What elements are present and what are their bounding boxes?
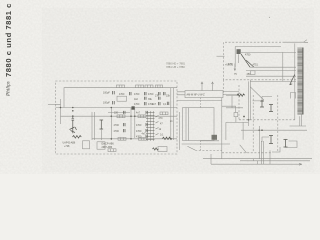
hook wire c: [285, 141, 297, 148]
wire column e: [134, 108, 136, 138]
capacitor C10a with label: [136, 111, 148, 115]
dashed horizontal 120: [239, 119, 296, 121]
junction dots: [243, 116, 245, 118]
capacitor C4b with label: [134, 97, 146, 101]
wire right inner vertical: [178, 112, 180, 150]
dashed vertical below transformer: [200, 141, 202, 151]
extra label row 1: [152, 95, 171, 107]
dashed bottom link: [195, 149, 222, 151]
junction dot: [72, 115, 74, 117]
capacitor C8 with label: [114, 123, 126, 127]
capacitor C2 with label: [103, 101, 114, 105]
hook wire d: [272, 147, 280, 152]
tube label box: [83, 141, 90, 149]
tube label ECC85: [63, 142, 76, 149]
bus line 4: [246, 75, 296, 77]
wire v248: [248, 81, 250, 126]
vertical v294: [294, 43, 296, 120]
capacitor C8a with label: [114, 111, 125, 115]
arrow up 2: [212, 82, 214, 91]
drop v259: [258, 126, 260, 159]
drop v270: [269, 150, 271, 164]
wire stubs to band box: [177, 92, 185, 95]
wire left inner vertical: [56, 99, 61, 124]
capacitor C10 with label: [136, 123, 148, 127]
rail junction dots: [60, 107, 62, 109]
band label text: [187, 93, 206, 96]
wire h122: [226, 121, 248, 123]
resistor R1 zigzag: [73, 136, 82, 139]
dashed box top right: [224, 42, 297, 80]
wire under transformer: [182, 143, 230, 145]
block lead down: [238, 54, 240, 63]
left link wires: [226, 96, 243, 108]
scan grain overlay: [0, 0, 320, 174]
capacitor C9 with label: [114, 129, 126, 133]
wiper diagonal 2: [290, 75, 295, 85]
hook wire b: [291, 93, 296, 99]
trimmer T2: [269, 105, 273, 112]
coil L1: [117, 85, 125, 88]
bottom bus 3: [211, 161, 302, 165]
coil L5: [138, 115, 146, 118]
input wire stub: [48, 103, 56, 105]
dashed vertical 278: [277, 95, 279, 152]
coil L4: [117, 115, 125, 118]
wire column g: [172, 88, 174, 140]
bottom bus 1: [203, 158, 312, 160]
small labels right cluster: [159, 117, 174, 137]
wire column f: [170, 88, 172, 140]
wire column d: [130, 108, 132, 138]
inner screen box corner: [108, 112, 130, 114]
wire column b: [94, 112, 96, 140]
lower rail dots: [111, 115, 113, 117]
top wire to comb: [283, 40, 309, 43]
long vertical bus: [221, 98, 223, 159]
transistor Q1: [70, 127, 77, 133]
wire bottom rail: [92, 138, 177, 140]
wire mid rail: [56, 107, 178, 109]
capacitor C16: [164, 92, 166, 95]
capacitor C6 with label: [134, 102, 146, 106]
bottom cluster box: [153, 147, 168, 152]
coupling cap C14: [72, 116, 75, 133]
switch wiper diagonal: [241, 54, 250, 67]
resistor R2 zigzag: [163, 137, 173, 140]
bus line 5: [250, 80, 296, 82]
capacitor C4 with label: [134, 92, 146, 96]
comb teeth: [297, 48, 303, 114]
tube label box 2: [97, 142, 105, 149]
dashed vertical 253: [252, 95, 254, 152]
wire v250: [249, 80, 251, 120]
comb bottom wire: [290, 114, 307, 126]
capacitor C5 with label: [148, 92, 160, 96]
small box on bus: [251, 71, 256, 75]
output transformer box: [183, 108, 215, 141]
diag bottom left: [250, 87, 264, 100]
IF can box T1: [117, 96, 127, 101]
diagonal to dashed: [187, 146, 195, 150]
dust speck: [269, 17, 270, 18]
comb spine: [302, 48, 304, 115]
small component box: [234, 113, 238, 117]
wire v225: [225, 122, 227, 140]
hook wire a: [262, 137, 269, 142]
inner switch box: [235, 47, 281, 68]
coil L3: [145, 85, 153, 88]
junction blob: [132, 106, 135, 109]
wire bend to cap: [222, 106, 236, 112]
T1 feed wires: [253, 96, 273, 101]
switch bank rungs: [146, 113, 159, 140]
capacitor C12 with label: [136, 135, 148, 139]
wire to arrow node: [223, 92, 240, 95]
capacitor C1 with label: [103, 91, 114, 95]
diagonal to dashed b: [240, 145, 247, 153]
wire above transformer: [177, 100, 222, 102]
capacitor C7 with label: [148, 102, 160, 106]
drop v211: [210, 154, 212, 164]
tube label EABC80: [102, 143, 115, 149]
switch contact block: [237, 49, 241, 54]
coil L8: [139, 138, 147, 141]
vertical v282: [282, 52, 284, 81]
coil L9: [108, 149, 116, 152]
trimmer T3: [269, 136, 273, 144]
transformer winding lines: [186, 108, 188, 141]
note text top right of main box: [166, 62, 186, 70]
capacitor C3 with label: [119, 92, 131, 96]
capacitor C15: [167, 102, 169, 105]
coil L3b: [156, 85, 163, 88]
capacitor C11 with label: [136, 129, 148, 133]
wire lower rail: [61, 115, 178, 117]
trimmer T4: [284, 140, 288, 148]
switch bank ladder: [148, 111, 154, 141]
wire blob feed: [200, 140, 219, 142]
left stub tick: [217, 55, 225, 57]
dashed left edge continuation: [223, 80, 225, 95]
bottom bus 2: [240, 159, 310, 161]
wire v243: [242, 122, 244, 139]
wire column a: [91, 112, 93, 140]
coil L6: [160, 112, 168, 115]
long cross wire: [241, 129, 307, 131]
trimmer T1: [260, 101, 264, 107]
transformer blob: [212, 135, 218, 140]
paper background: [0, 0, 320, 174]
coil L7: [118, 138, 126, 141]
switch wiper diagonal 2: [246, 60, 254, 67]
main unit dashed box: [56, 81, 178, 154]
switch line 2: [250, 66, 296, 68]
coil L2: [136, 85, 144, 88]
dashed vertical mid: [200, 98, 202, 108]
dashed vertical 239: [238, 85, 240, 120]
wire column c: [110, 108, 112, 140]
dashed bottom link b: [222, 152, 272, 154]
arrow up 1: [201, 82, 203, 91]
bus line 3: [246, 70, 296, 72]
band label box: [185, 91, 223, 98]
switch line 1: [241, 51, 296, 53]
capacitor C5b with label: [148, 97, 160, 101]
electrolytic C13: [100, 120, 104, 129]
twin drop to edge: [261, 141, 263, 164]
wire top rail: [64, 88, 177, 108]
resistor R3 zigzag: [237, 94, 245, 96]
